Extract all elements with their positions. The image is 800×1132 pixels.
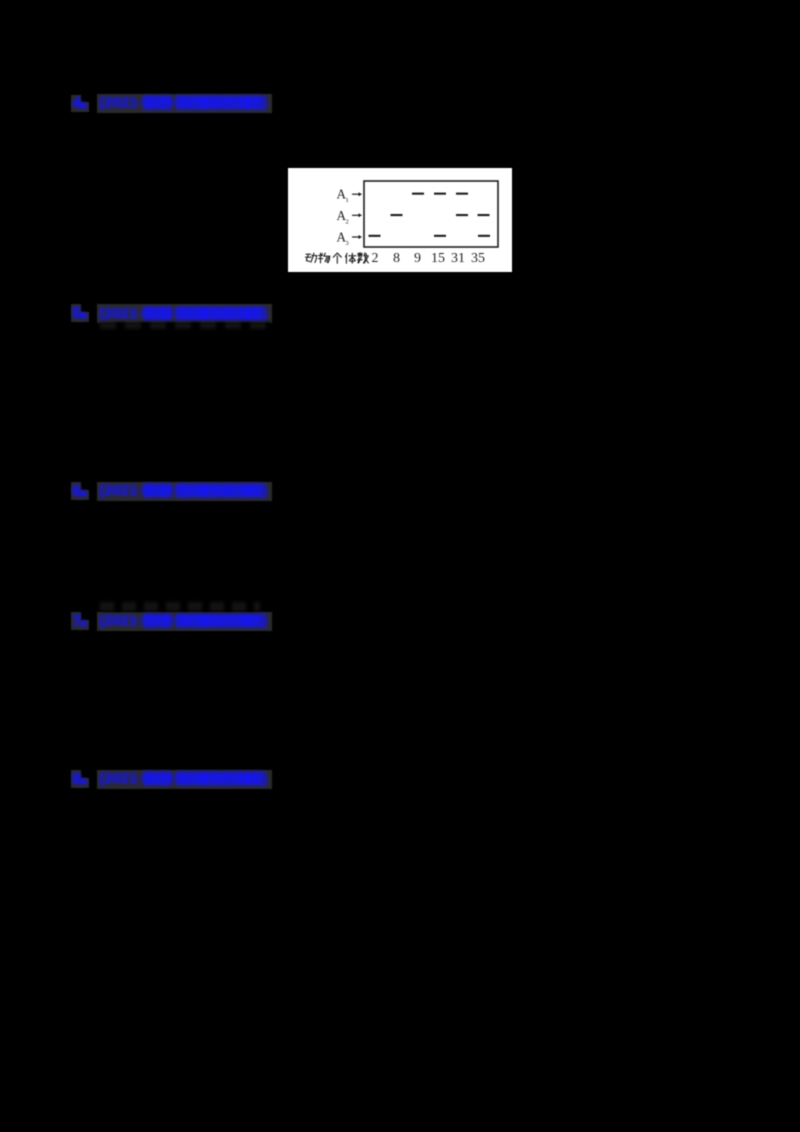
bands row A3: lanes 2,15,35 <box>369 234 381 236</box>
bands row A1: lanes 9,15,31 <box>412 192 424 194</box>
question 4 source link <box>97 94 272 113</box>
char: dong <box>306 253 317 262</box>
svg-text:3: 3 <box>346 240 349 247</box>
question 6 number <box>71 482 82 500</box>
question 5 number <box>71 304 82 322</box>
svg-text:2: 2 <box>372 251 379 266</box>
question 4 number <box>71 95 82 113</box>
question 7 number <box>71 612 82 630</box>
char: ge <box>333 253 341 263</box>
bands row A2: lanes 8,31,35 <box>391 214 403 216</box>
gel box frame <box>364 181 498 247</box>
arrowhead A3 <box>359 235 363 239</box>
char: shu <box>358 252 369 262</box>
axis caption (drawn CJK-style strokes, reads dong-wu-ge-ti-shu) <box>306 252 369 263</box>
svg-text:2: 2 <box>346 218 349 225</box>
char: ti <box>346 253 356 263</box>
svg-text:1: 1 <box>346 197 349 204</box>
svg-text:8: 8 <box>393 251 400 266</box>
svg-text:35: 35 <box>471 251 485 266</box>
jpeg artifact smudge above question 7 line <box>100 602 260 611</box>
arrow A1 <box>352 193 359 195</box>
jpeg artifact smudge below question 5 line <box>100 322 270 329</box>
arrow A2 <box>352 214 359 216</box>
question 7 source link <box>97 612 272 631</box>
char: wu <box>319 253 330 263</box>
svg-text:31: 31 <box>451 251 465 266</box>
arrowhead A2 <box>359 213 363 217</box>
svg-text:9: 9 <box>414 251 421 266</box>
question 6 source link <box>97 482 272 501</box>
arrow A3 <box>352 236 359 238</box>
question 8 source link <box>97 770 272 789</box>
question 5 source link <box>97 304 272 323</box>
gel electrophoresis figure <box>288 168 512 272</box>
svg-text:15: 15 <box>431 251 445 266</box>
question 8 number <box>71 770 82 788</box>
arrowhead A1 <box>359 192 363 196</box>
